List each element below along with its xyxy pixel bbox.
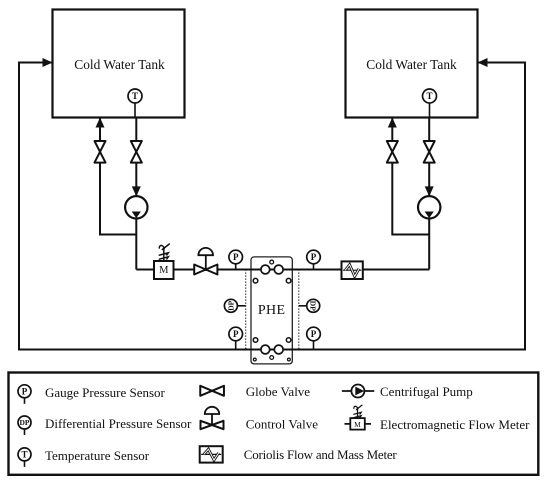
- svg-text:T: T: [132, 91, 138, 101]
- svg-text:P: P: [233, 252, 239, 262]
- pressure tap dotted line (left of PHE): [245, 270, 247, 350]
- svg-text:Cold Water Tank: Cold Water Tank: [74, 57, 165, 72]
- wire: top pipe from left pump to right pump through PHE: [136, 269, 429, 271]
- globe valve (left outlet): [131, 141, 142, 163]
- legend: electromagnetic flow meter symbol: [345, 423, 372, 425]
- svg-text:P: P: [311, 329, 317, 339]
- PHE bolt hole bottom-left: [253, 358, 256, 361]
- svg-text:Electromagnetic Flow Meter: Electromagnetic Flow Meter: [380, 417, 530, 432]
- svg-text:M: M: [159, 265, 169, 276]
- arrow down into right pump: [425, 186, 434, 196]
- svg-text:Temperature Sensor: Temperature Sensor: [45, 448, 150, 463]
- legend: gauge pressure sensor symbol: [18, 385, 31, 404]
- svg-text:T: T: [21, 449, 27, 459]
- svg-text:Globe Valve: Globe Valve: [246, 384, 311, 399]
- control valve (bowtie): [194, 265, 217, 275]
- electromagnetic flow meter M: [154, 261, 174, 279]
- svg-text:P: P: [22, 386, 28, 396]
- svg-text:M: M: [354, 420, 361, 429]
- PHE small hole lower-left: [253, 338, 258, 343]
- wire: right tank outlet down to pump: [428, 118, 430, 270]
- svg-text:DP: DP: [309, 301, 318, 311]
- svg-text:T: T: [426, 91, 432, 101]
- legend box: [9, 373, 539, 475]
- globe valve (left bypass): [95, 141, 106, 163]
- svg-text:DP: DP: [20, 418, 30, 427]
- arrow into right tank (right side): [478, 58, 488, 67]
- plate heat exchanger PHE body: [251, 257, 292, 364]
- PHE small hole upper-right: [286, 278, 291, 283]
- control valve actuator dome: [198, 248, 213, 270]
- arrow up into right tank bottom (bypass): [388, 118, 397, 128]
- svg-text:Control Valve: Control Valve: [246, 417, 319, 432]
- PHE small hole top middle: [270, 260, 274, 264]
- gauge pressure sensor P (top right of PHE): [307, 250, 321, 269]
- legend: centrifugal pump symbol: [342, 390, 374, 392]
- gauge pressure sensor P (bottom left of PHE): [229, 327, 243, 349]
- wire: right bypass line to tank bottom: [392, 118, 429, 235]
- arrow up into left tank bottom (bypass): [96, 118, 105, 128]
- globe valve (right bypass): [387, 141, 398, 163]
- PHE bolt hole bottom-right: [288, 358, 291, 361]
- temperature sensor T (left tank): [128, 89, 142, 118]
- centrifugal pump P1 (left): [125, 196, 147, 218]
- arrow into left tank (left side): [43, 58, 53, 67]
- left Cold Water Tank: [53, 10, 185, 118]
- coriolis flow and mass meter: [342, 261, 363, 279]
- PHE small hole bottom middle: [270, 356, 274, 360]
- svg-text:P: P: [233, 329, 239, 339]
- wire: top pipe through PHE ports: [261, 265, 270, 274]
- wire: left tank outlet down to pump and top pipe: [135, 118, 137, 270]
- svg-text:Centrifugal Pump: Centrifugal Pump: [380, 384, 473, 399]
- gauge pressure sensor P (top left of PHE): [229, 250, 243, 269]
- right Cold Water Tank: [346, 10, 478, 118]
- wire: left bypass line to tank bottom: [100, 118, 136, 235]
- PHE small hole lower-right: [286, 338, 291, 343]
- svg-text:Cold Water Tank: Cold Water Tank: [366, 57, 457, 72]
- svg-text:Coriolis Flow and Mass Meter: Coriolis Flow and Mass Meter: [244, 447, 398, 462]
- globe valve (right outlet): [424, 141, 435, 163]
- svg-text:Gauge Pressure Sensor: Gauge Pressure Sensor: [45, 385, 166, 400]
- squiggle signal symbol on flow meter: [159, 244, 169, 261]
- gauge pressure sensor P (bottom right of PHE): [307, 327, 321, 349]
- differential pressure sensor DP (left): [237, 305, 246, 307]
- svg-text:Differential Pressure Sensor: Differential Pressure Sensor: [45, 416, 192, 431]
- centrifugal pump P2 (right): [418, 196, 440, 218]
- differential pressure sensor DP (right): [299, 305, 307, 307]
- legend: coriolis flow meter symbol: [200, 446, 223, 462]
- pressure tap dotted line (right of PHE): [298, 270, 300, 350]
- legend: differential pressure sensor symbol: [18, 416, 31, 435]
- wire: left return pipe (left tank inlet, down left side, along bottom): [19, 63, 525, 350]
- legend: globe valve symbol: [200, 386, 224, 396]
- legend: temperature sensor symbol: [18, 448, 31, 467]
- svg-text:DP: DP: [226, 300, 235, 310]
- svg-text:PHE: PHE: [258, 303, 286, 318]
- temperature sensor T (right tank): [423, 89, 437, 118]
- arrow down into left pump: [132, 186, 141, 196]
- PHE small hole upper-left: [253, 278, 258, 283]
- PHE bottom port circles: [261, 345, 270, 354]
- svg-text:P: P: [311, 252, 317, 262]
- legend: control valve symbol: [201, 421, 224, 429]
